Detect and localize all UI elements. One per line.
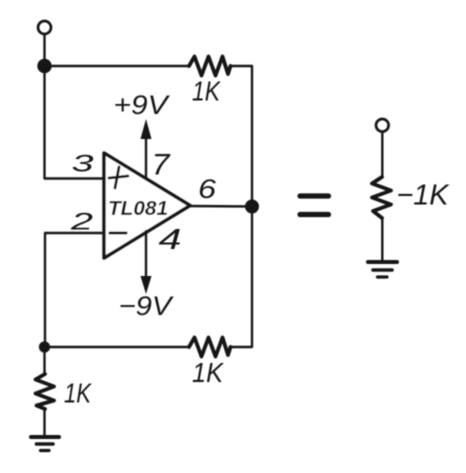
wire terminal to top node [43,35,45,61]
wire right rail down to bottom corner [231,213,253,347]
pin 4 wire [145,231,147,278]
svg-text:3: 3 [72,151,95,178]
svg-text:1K: 1K [192,357,224,388]
svg-text:1K: 1K [64,378,92,409]
ground (right) [368,260,397,264]
op-amp inverting input - symbol [110,232,126,235]
resistor R1 1K (top) [189,57,231,76]
wire top horizontal to R1 [45,65,190,67]
svg-text:1K: 1K [192,76,221,107]
wire terminal to -1K resistor [381,132,383,177]
wire -1K to ground [381,218,383,262]
-9V arrow head [141,276,152,294]
resistor R2 1K (bottom) [189,338,231,357]
wire R1 to right rail corner [231,66,253,200]
op-amp noninverting input + symbol [109,167,128,188]
wire R3 to ground [43,409,45,437]
equivalent terminal (open circle) [376,119,389,132]
resistor R3 1K (vertical) [36,374,55,409]
svg-text:6: 6 [198,174,217,204]
ground (left) [31,435,59,439]
wire bottom horizontal to left node [45,346,190,348]
resistor -1K (equivalent) [372,177,391,218]
+9V arrow head [141,119,152,139]
svg-text:−9V: −9V [119,291,175,321]
pin 7 wire [145,136,147,178]
svg-text:−1K: −1K [397,180,451,212]
equals sign [300,193,329,198]
node: output junction dot [245,200,259,214]
wire pin 2 to left rail [45,233,102,341]
svg-text:TL081: TL081 [108,198,168,220]
op-amp U1 TL081 body [104,153,190,258]
svg-text:4: 4 [159,224,182,256]
svg-text:2: 2 [69,209,93,236]
wire node to R3 [43,347,45,374]
wire left vertical to pin 3 [45,72,103,179]
node: bottom-left junction dot [39,341,50,352]
input terminal (open circle) [38,21,51,34]
svg-text:+9V: +9V [114,90,171,120]
wire output pin 6 [190,205,252,208]
svg-text:7: 7 [152,149,171,182]
node: top-left junction dot [37,59,51,73]
